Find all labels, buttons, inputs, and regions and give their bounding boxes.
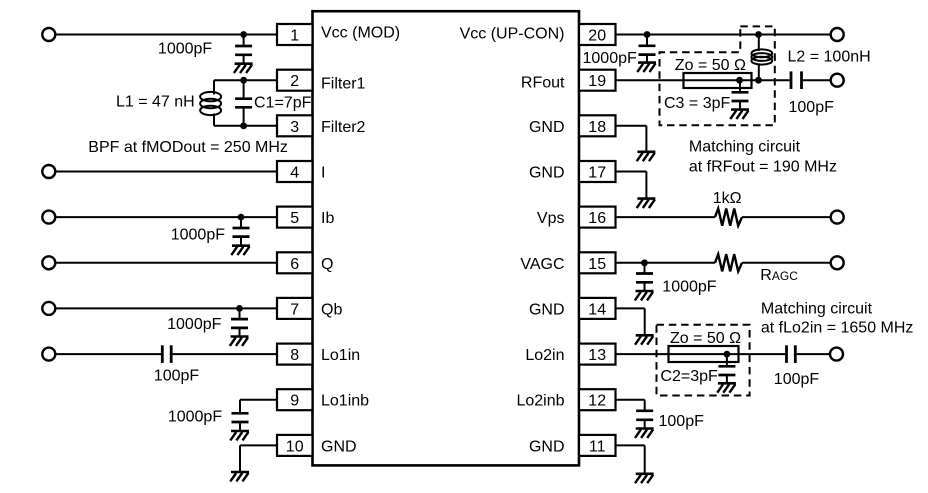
svg-text:C3 = 3pF: C3 = 3pF bbox=[664, 95, 730, 112]
svg-text:7: 7 bbox=[290, 301, 299, 318]
svg-text:GND: GND bbox=[321, 438, 357, 455]
svg-text:Vcc (MOD): Vcc (MOD) bbox=[321, 25, 400, 42]
svg-text:10: 10 bbox=[286, 438, 304, 455]
svg-text:1000pF: 1000pF bbox=[171, 226, 225, 243]
svg-text:1000pF: 1000pF bbox=[158, 41, 212, 58]
svg-text:Filter1: Filter1 bbox=[321, 75, 366, 92]
svg-text:Matching circuit: Matching circuit bbox=[689, 139, 801, 156]
svg-text:L1 = 47 nH: L1 = 47 nH bbox=[116, 93, 195, 110]
svg-text:Lo1in: Lo1in bbox=[321, 347, 360, 364]
svg-text:GND: GND bbox=[529, 119, 565, 136]
svg-text:15: 15 bbox=[588, 256, 606, 273]
svg-text:Vcc (UP-CON): Vcc (UP-CON) bbox=[460, 25, 565, 42]
svg-text:at fLo2in = 1650 MHz: at fLo2in = 1650 MHz bbox=[761, 320, 914, 337]
svg-text:GND: GND bbox=[529, 438, 565, 455]
svg-text:5: 5 bbox=[290, 210, 299, 227]
svg-text:VAGC: VAGC bbox=[520, 256, 564, 273]
svg-text:2: 2 bbox=[290, 73, 299, 90]
svg-text:I: I bbox=[321, 165, 325, 182]
svg-text:13: 13 bbox=[588, 347, 606, 364]
svg-text:at fRFout = 190 MHz: at fRFout = 190 MHz bbox=[689, 159, 837, 176]
svg-text:6: 6 bbox=[290, 256, 299, 273]
svg-text:14: 14 bbox=[588, 301, 606, 318]
svg-text:Lo1inb: Lo1inb bbox=[321, 393, 369, 410]
svg-text:RFout: RFout bbox=[521, 74, 565, 91]
svg-text:C1=7pF: C1=7pF bbox=[254, 94, 312, 111]
svg-text:Zo = 50 Ω: Zo = 50 Ω bbox=[675, 57, 746, 74]
svg-text:Matching circuit: Matching circuit bbox=[761, 301, 873, 318]
svg-text:9: 9 bbox=[290, 393, 299, 410]
svg-text:1kΩ: 1kΩ bbox=[713, 190, 742, 207]
svg-text:Vps: Vps bbox=[537, 210, 565, 227]
svg-text:19: 19 bbox=[588, 73, 606, 90]
svg-text:1000pF: 1000pF bbox=[167, 316, 221, 333]
svg-text:L2 = 100nH: L2 = 100nH bbox=[788, 49, 871, 66]
svg-text:20: 20 bbox=[588, 28, 606, 45]
svg-text:Ib: Ib bbox=[321, 210, 334, 227]
svg-text:GND: GND bbox=[529, 301, 565, 318]
svg-text:18: 18 bbox=[588, 119, 606, 136]
svg-text:GND: GND bbox=[529, 165, 565, 182]
svg-text:Zo = 50 Ω: Zo = 50 Ω bbox=[670, 330, 741, 347]
svg-text:1000pF: 1000pF bbox=[662, 278, 716, 295]
svg-text:1000pF: 1000pF bbox=[583, 50, 637, 67]
svg-text:100pF: 100pF bbox=[154, 368, 200, 385]
svg-text:Filter2: Filter2 bbox=[321, 119, 366, 136]
svg-text:Qb: Qb bbox=[321, 301, 342, 318]
svg-text:C2=3pF: C2=3pF bbox=[660, 368, 718, 385]
svg-text:11: 11 bbox=[589, 438, 606, 455]
svg-text:3: 3 bbox=[290, 119, 299, 136]
svg-text:12: 12 bbox=[588, 393, 606, 410]
svg-text:100pF: 100pF bbox=[774, 371, 820, 388]
svg-text:17: 17 bbox=[588, 165, 606, 182]
svg-text:Lo2inb: Lo2inb bbox=[516, 393, 564, 410]
svg-text:100pF: 100pF bbox=[659, 413, 705, 430]
svg-text:4: 4 bbox=[290, 165, 299, 182]
svg-text:BPF at fMODout = 250 MHz: BPF at fMODout = 250 MHz bbox=[88, 139, 288, 156]
svg-text:Q: Q bbox=[321, 256, 333, 273]
svg-text:1000pF: 1000pF bbox=[168, 409, 222, 426]
svg-text:1: 1 bbox=[290, 28, 299, 45]
svg-text:16: 16 bbox=[588, 210, 606, 227]
svg-text:RAGC: RAGC bbox=[760, 267, 798, 284]
svg-text:100pF: 100pF bbox=[789, 99, 835, 116]
svg-text:Lo2in: Lo2in bbox=[525, 347, 564, 364]
svg-text:8: 8 bbox=[290, 347, 299, 364]
